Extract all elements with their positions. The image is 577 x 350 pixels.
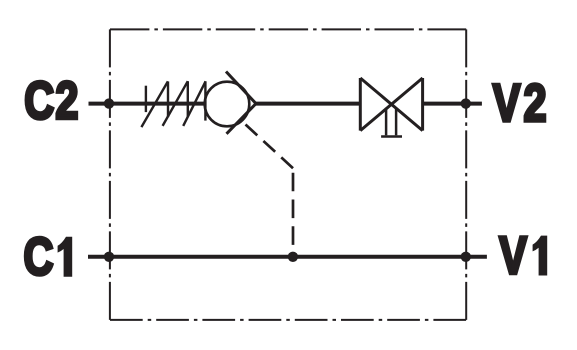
- node C2: [104, 98, 114, 108]
- shut-off valve left seat: [359, 78, 362, 131]
- port label C2: [24, 72, 78, 131]
- check valve ball: [205, 82, 250, 127]
- svg-text:2: 2: [524, 74, 547, 133]
- enclosure border bottom: [110, 319, 466, 321]
- wire C1 to V1: [88, 255, 487, 259]
- pilot line dashed diagonal: [246, 125, 294, 169]
- svg-text:V: V: [499, 227, 527, 286]
- shut-off valve stem right: [395, 108, 398, 136]
- port label V2: [493, 74, 547, 133]
- wire shut-off valve to V2: [423, 102, 482, 106]
- wire check valve to shut-off valve: [256, 102, 361, 106]
- pilot line dashed vertical: [292, 173, 295, 252]
- svg-text:C: C: [24, 72, 54, 131]
- shut-off valve diagonal 2: [360, 78, 422, 131]
- node V1: [461, 252, 471, 262]
- node C1: [104, 252, 114, 262]
- check valve seat upper arm: [226, 72, 256, 104]
- enclosure border left: [109, 29, 111, 320]
- shut-off valve stem left: [385, 108, 388, 136]
- svg-text:C: C: [24, 228, 54, 287]
- shut-off valve stem base: [381, 135, 402, 138]
- spring: [141, 81, 205, 127]
- node pilot junction: [288, 252, 298, 262]
- port label V1 digit 1: [533, 236, 548, 276]
- wire C2 to check valve: [89, 102, 206, 106]
- node V2: [461, 98, 471, 108]
- shut-off valve diagonal 1: [360, 78, 422, 131]
- svg-text:2: 2: [55, 72, 78, 131]
- port label C1: [24, 228, 54, 287]
- shut-off valve right seat: [421, 78, 424, 131]
- port label C1 digit 1: [58, 237, 73, 277]
- port label V1: [499, 227, 527, 286]
- svg-text:V: V: [493, 74, 521, 133]
- enclosure border top: [110, 28, 466, 30]
- check valve seat lower arm: [227, 104, 257, 134]
- enclosure border right: [465, 29, 467, 320]
